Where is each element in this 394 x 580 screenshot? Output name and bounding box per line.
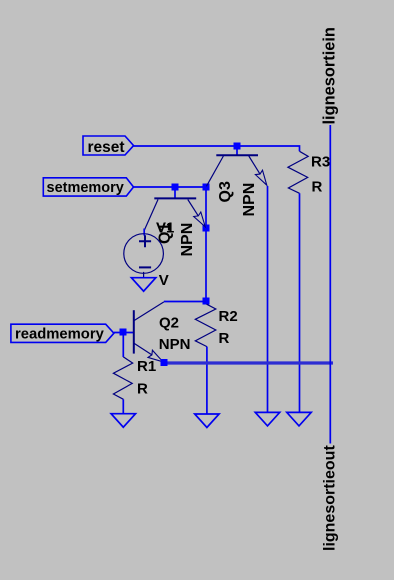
wire setmemory xyxy=(134,186,207,188)
bus wire (thick) from Q2 emitter to right net xyxy=(164,361,333,364)
svg-text:NPN: NPN xyxy=(159,336,191,353)
wire Q1 collector to V top xyxy=(143,229,145,236)
flag readmemory xyxy=(11,324,114,342)
wire R2 bottom to ground xyxy=(206,347,208,414)
transistor Q3 xyxy=(206,155,266,186)
junction Q2 collector / R2 xyxy=(203,298,210,305)
svg-text:V: V xyxy=(159,272,169,289)
junction readmemory / R1 xyxy=(120,329,127,336)
svg-text:lignesortieout: lignesortieout xyxy=(322,445,339,551)
svg-text:Q3: Q3 xyxy=(217,181,234,202)
svg-text:R: R xyxy=(137,381,148,398)
svg-text:Q2: Q2 xyxy=(159,315,179,332)
flag reset xyxy=(83,136,134,156)
ground below Q3 emitter xyxy=(255,412,279,426)
svg-text:R: R xyxy=(312,178,323,195)
svg-text:V1: V1 xyxy=(156,220,174,237)
wire R1 bottom xyxy=(122,399,124,413)
ground below V1 xyxy=(131,278,155,292)
transistor Q2 xyxy=(134,302,164,362)
transistor Q1 xyxy=(144,198,205,230)
wire R3 bottom to ground xyxy=(299,193,301,412)
junction at reset/Q3 base xyxy=(234,143,241,150)
svg-text:NPN: NPN xyxy=(179,223,196,257)
voltage source V1 xyxy=(124,234,164,278)
junction setmemory/Q3 collector xyxy=(203,184,210,191)
wire Q2 collector horizontal xyxy=(164,301,206,303)
wire Q3 base stub xyxy=(236,146,238,155)
ground below R1 xyxy=(111,414,135,428)
wire readmemory to Q2 base xyxy=(114,332,133,334)
flag setmemory xyxy=(43,178,133,196)
svg-text:R3: R3 xyxy=(311,153,330,170)
wire net lignesortie vertical xyxy=(329,125,331,444)
svg-text:R: R xyxy=(219,330,230,347)
junction setmemory/Q1 base xyxy=(172,184,179,191)
resistor R1 xyxy=(113,357,132,400)
svg-text:setmemory: setmemory xyxy=(47,180,124,196)
resistor R2 xyxy=(195,304,216,346)
wire vertical node A (Q3 collector down to Q2 collector) xyxy=(205,187,207,301)
wire R1 top xyxy=(122,333,124,358)
svg-text:lignesortiein: lignesortiein xyxy=(321,27,339,124)
svg-text:reset: reset xyxy=(88,139,125,156)
svg-text:R2: R2 xyxy=(219,308,238,325)
wire reset to R3 bend xyxy=(134,146,300,151)
ground below R2 xyxy=(195,414,219,428)
svg-text:R1: R1 xyxy=(137,358,156,375)
resistor R3 xyxy=(288,151,308,193)
wire Q3 emitter down xyxy=(267,186,269,413)
ground below R3 xyxy=(287,412,311,426)
wire Q1 base stub xyxy=(174,187,176,198)
svg-text:readmemory: readmemory xyxy=(15,327,105,343)
junction Q2 emitter / bus xyxy=(161,359,168,366)
junction Q1 emitter / node A xyxy=(203,225,210,232)
svg-text:NPN: NPN xyxy=(241,183,258,217)
